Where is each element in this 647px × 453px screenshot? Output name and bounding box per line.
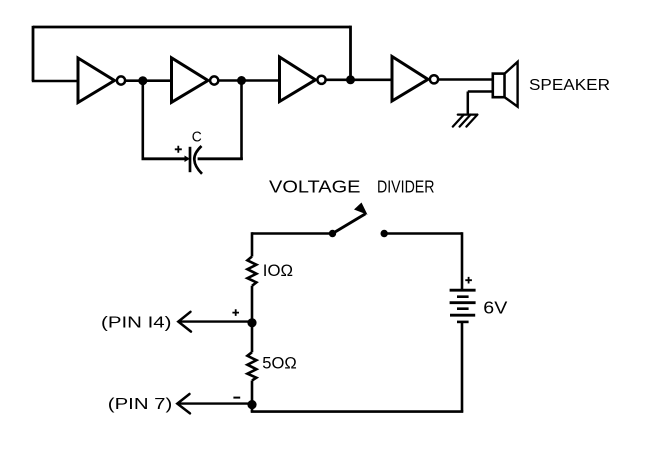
node PIN7 junction (247, 400, 256, 409)
capacitor polarity plus (175, 146, 182, 153)
wire speaker ground tap horizontal (468, 90, 493, 93)
svg-text:VOLTAGE: VOLTAGE (269, 177, 361, 197)
wire PIN14 arrow line (180, 320, 252, 322)
wire node A down to capacitor (142, 81, 145, 159)
label plus at PIN14 (232, 309, 239, 316)
wire battery branch top vertical (461, 232, 464, 289)
inverter U3 (280, 57, 326, 102)
capacitor C1 wedge at plate (185, 156, 191, 163)
battery polarity plus (465, 277, 472, 284)
speaker LS1 driver box (493, 74, 505, 98)
switch S1 (329, 203, 388, 238)
wire feedback left vertical (32, 26, 35, 81)
capacitor C1 curved plate (194, 146, 202, 174)
wire U3 output to U4 input (326, 79, 392, 82)
battery BT1 (450, 290, 476, 322)
wire feedback right vertical (349, 26, 352, 80)
wire left branch above R1 (251, 232, 254, 256)
wire below R2 (251, 381, 254, 412)
svg-text:6V: 6V (483, 297, 507, 317)
resistor R1 10 ohm (247, 257, 256, 286)
svg-text:(PIN I4): (PIN I4) (101, 314, 172, 331)
wire capacitor right horizontal (198, 157, 243, 160)
wire battery bottom vertical (461, 322, 464, 412)
wire divider top left (left branch to switch) (252, 232, 330, 235)
svg-text:5OΩ: 5OΩ (262, 354, 297, 372)
svg-text:DIVIDER: DIVIDER (377, 177, 435, 197)
wire feedback top horizontal (33, 26, 351, 29)
label VOLTAGE DIVIDER (269, 177, 435, 197)
wire node B down to capacitor (240, 81, 243, 161)
node junction C (U3 out, feedback tap) (346, 75, 355, 84)
node junction A (U1 out) (138, 76, 147, 85)
svg-text:C: C (192, 128, 202, 145)
wire between R1 and R2 (251, 286, 254, 352)
resistor R2 50 ohm (247, 352, 256, 380)
arrow head PIN14 (178, 312, 191, 332)
wire speaker ground tap vertical (467, 92, 470, 115)
speaker LS1 cone (505, 62, 518, 107)
label minus at PIN7 (233, 397, 240, 399)
wire U1 output to U2 input (126, 79, 172, 82)
inverter U1 (78, 58, 125, 103)
node junction B (U2 out) (237, 76, 246, 85)
inverter U4 (392, 57, 438, 102)
wire divider bottom horizontal (251, 410, 464, 413)
svg-text:IOΩ: IOΩ (263, 262, 293, 280)
ground symbol (453, 115, 478, 127)
wire U4 output to speaker (438, 78, 493, 81)
arrow head PIN7 (177, 394, 190, 413)
svg-text:SPEAKER: SPEAKER (529, 77, 610, 94)
wire PIN7 arrow line (179, 402, 250, 404)
wire switch to battery branch (384, 232, 462, 235)
inverter U2 (172, 58, 219, 103)
wire U2 output to U3 input (219, 79, 280, 82)
wire input to inverter U1 (32, 80, 78, 83)
node PIN14 junction (247, 318, 256, 327)
capacitor C1 straight plate (189, 147, 192, 172)
wire capacitor left horizontal (142, 157, 187, 160)
svg-text:(PIN 7): (PIN 7) (108, 396, 173, 413)
